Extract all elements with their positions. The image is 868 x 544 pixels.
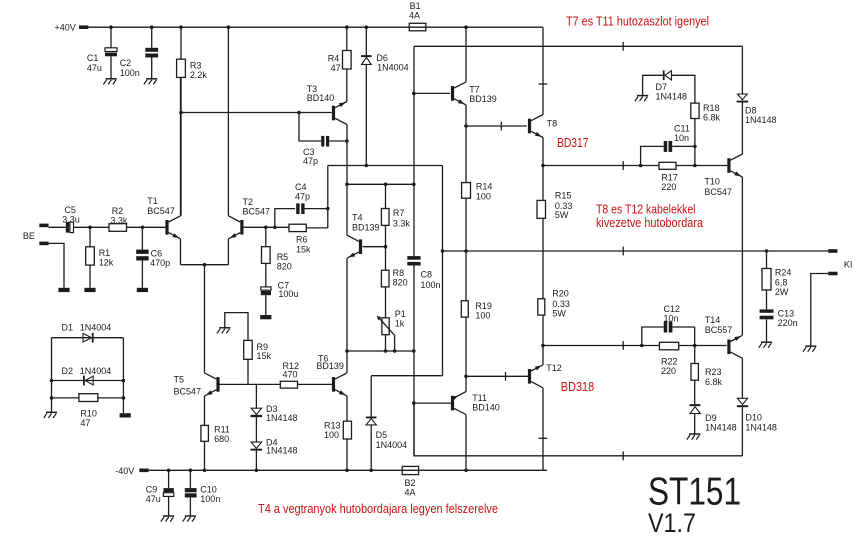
ground C10 [183,516,196,522]
resistor R3 [177,27,208,216]
junction node 366.3,165.5 [365,164,369,168]
junction node 299,112.5 [297,111,301,115]
wire T8 emitter [542,138,544,201]
svg-text:680: 680 [214,434,229,444]
wire T7 collector [465,27,467,82]
svg-text:BD318: BD318 [561,380,594,394]
svg-text:BC547: BC547 [243,206,271,216]
junction node 346.8,27.2 [345,25,349,29]
crossing tick at 623.2,455.8 [622,451,624,460]
svg-text:D9: D9 [705,413,717,423]
wire T4 emitter [346,258,348,373]
capacitor C7 [261,280,299,315]
svg-text:BD140: BD140 [307,93,335,103]
wire D2 mid [52,380,124,382]
svg-text:1N4148: 1N4148 [656,91,688,101]
junction node 694.9,165.5 [693,164,697,168]
svg-text:R11: R11 [214,424,230,434]
capacitor C12 [642,304,695,345]
junction node 543,345.5 [541,344,545,348]
wire T5 emitter [204,396,206,426]
ground C1 [103,79,116,85]
svg-text:KI: KI [844,259,853,269]
wire T10 emitter [741,177,743,335]
wire branch bottom [371,375,442,377]
diode D10 [737,358,777,456]
capacitor C4 [275,182,328,227]
terminal KI upper [828,249,837,253]
capacitor C10 [185,470,221,516]
junction node 190.4,470.3 [189,469,193,473]
resistor R22 [659,342,678,376]
wire T1 emitter [180,239,182,265]
svg-text:47: 47 [80,418,90,428]
resistor R6 [266,224,328,254]
ground bar C6 [137,288,148,292]
note T8/T12 line2 [596,216,703,230]
svg-text:47p: 47p [295,192,310,202]
svg-text:R23: R23 [705,367,722,377]
junction node 274.8,227.3 [273,226,277,230]
junction node 111,27.2 [109,25,113,29]
svg-text:4A: 4A [409,11,420,21]
svg-text:1N4004: 1N4004 [377,63,409,73]
resistor R8 [381,247,407,318]
wire T1 collector [180,77,182,215]
resistor R7 [381,184,410,246]
wire T11 base [414,402,451,404]
ground bar BE [58,288,69,292]
svg-text:C13: C13 [778,309,795,319]
junction node 466,376.3 [464,375,468,379]
transistor T1 [147,196,180,239]
svg-text:B1: B1 [410,1,421,11]
junction node 385.5,351 [384,349,388,353]
svg-text:R24: R24 [775,268,792,278]
capacitor C6 [136,227,170,287]
junction node 204.5,264.7 [203,263,207,267]
svg-text:1N4148: 1N4148 [745,115,777,125]
junction node 366.3,27.2 [365,25,369,29]
wire T12 base [466,375,528,377]
svg-text:1N4004: 1N4004 [376,440,408,450]
svg-text:470: 470 [283,370,298,380]
transistor T11 [451,392,500,415]
junction node 204.5,470.3 [203,469,207,473]
ground KI [803,346,816,352]
wire node T8emitter [543,165,727,167]
crossing tick at 623.2,165.5 [622,161,624,170]
svg-text:T14: T14 [705,315,721,325]
wire T8 base [466,125,527,127]
svg-text:100n: 100n [421,280,441,290]
capacitor C5 [49,205,109,232]
svg-text:T10: T10 [704,177,720,187]
junction node 694.7,345.5 [693,344,697,348]
svg-text:B2: B2 [405,478,416,488]
junction node 385.5,246.7 [384,245,388,249]
crossing tick at 505.5,376.3 [505,372,507,381]
svg-text:T8 es T12 kabelekkel: T8 es T12 kabelekkel [596,203,696,217]
junction node 641.8,345.5 [640,344,644,348]
ground D1D2 [44,412,57,418]
wire node 166 [328,165,443,167]
transistor T3 [307,84,347,125]
svg-text:kivezetve hutobordara: kivezetve hutobordara [596,216,703,230]
junction node 256.4,470.3 [255,469,259,473]
wire T7 emitter [465,105,467,183]
svg-text:T7: T7 [469,84,480,94]
junction node 151.7,27.2 [150,25,154,29]
junction node 413.8,184.3 [412,183,416,187]
diode D8 [737,46,777,154]
svg-text:D10: D10 [745,413,762,423]
junction node 442.5,251 [441,249,445,253]
transistor T8 [528,115,557,138]
svg-text:R19: R19 [475,301,492,311]
note T8/T12 line1 [596,203,696,217]
svg-text:6.8k: 6.8k [705,377,723,387]
junction node 466,27.2 [464,25,468,29]
wire node T12emitter [543,345,727,347]
junction node 466,126 [464,124,468,128]
title V1.7 [648,508,696,538]
svg-text:R1: R1 [99,248,111,258]
junction node 371.2,470.3 [369,469,373,473]
potentiometer P1 [377,309,406,351]
wire T2 emitter [227,239,229,265]
svg-text:+40V: +40V [55,22,76,32]
ground bar R10 [120,413,131,417]
diode D6 [361,27,409,165]
capacitor C1 [87,27,117,79]
resistor R13 [324,420,352,470]
terminal BE upper [23,224,49,242]
svg-text:BC547: BC547 [147,206,175,216]
svg-text:12k: 12k [99,258,114,268]
wire output line [443,250,829,252]
junction node 123.4,397.9 [122,396,126,400]
wire T3 collector [346,125,348,236]
junction node 543,165.5 [541,164,545,168]
note T4 [258,502,498,516]
svg-text:47u: 47u [146,494,161,504]
svg-text:5W: 5W [555,210,569,220]
junction node 385.5,184.3 [384,183,388,187]
resistor R19 [461,301,492,392]
junction node 90,227.3 [88,226,92,230]
capacitor C11 [641,124,695,166]
svg-text:0.33: 0.33 [552,299,570,309]
svg-text:R3: R3 [190,60,202,70]
svg-text:BC557: BC557 [705,325,733,335]
junction node 347,184.3 [345,183,349,187]
ground D7 [635,96,648,102]
ground C9 [161,516,174,522]
svg-text:2.2k: 2.2k [190,70,208,80]
svg-text:R14: R14 [476,181,493,191]
wire node455 [414,403,742,456]
svg-text:BD140: BD140 [472,403,500,413]
svg-text:BD139: BD139 [352,223,380,233]
wire T2 collector [227,27,229,216]
crossing tick at 623.2,46.3 [622,42,624,51]
svg-text:3.3k: 3.3k [393,218,411,228]
note BD318 [561,380,594,394]
junction node 466,470.3 [464,469,468,473]
wire D1D2 right [122,338,124,414]
resistor R15 [537,190,572,251]
resistor R23 [691,364,723,405]
transistor T6 [316,354,347,396]
junction node 466,251 [464,249,468,253]
diode D1 [62,322,112,342]
svg-text:C6: C6 [151,248,163,258]
wire T8 collector [542,27,544,114]
svg-text:C9: C9 [146,484,158,494]
svg-text:T5: T5 [174,375,185,385]
crossing tick at 543,84 [539,83,548,85]
crossing tick at 543,438.3 [539,437,548,439]
junction node 766.5,251 [765,249,769,253]
svg-text:820: 820 [277,261,292,271]
svg-text:6.8k: 6.8k [703,113,721,123]
svg-text:15k: 15k [296,245,311,255]
diode D9 [690,404,737,434]
svg-text:1N4148: 1N4148 [745,422,777,432]
wire C4 riser [327,166,329,229]
svg-text:BC547: BC547 [704,187,732,197]
svg-text:47u: 47u [87,63,102,73]
svg-text:T4 a vegtranyok hutobordajara: T4 a vegtranyok hutobordajara legyen fel… [258,502,498,516]
junction node 265.8,227.3 [264,226,268,230]
transistor T7 [451,82,497,105]
resistor R1 [86,227,114,287]
wire D1D2 left [51,338,53,413]
svg-text:100: 100 [476,191,491,201]
svg-text:D2: D2 [62,366,74,376]
transistor T14 [705,315,743,358]
wire T5 base row [219,383,280,385]
svg-text:T12: T12 [546,363,562,373]
junction node 228.4,27.2 [227,25,231,29]
svg-text:D6: D6 [376,53,388,63]
wire tail [181,265,229,373]
junction node 142.4,227.3 [141,226,145,230]
svg-text:BC547: BC547 [174,387,202,397]
transistor T12 [528,363,562,388]
svg-text:T11: T11 [472,393,487,403]
wire T6 emitter [346,396,348,421]
svg-text:BE: BE [23,231,35,241]
svg-text:R8: R8 [393,268,405,278]
resistor R5 [243,227,292,287]
svg-text:100: 100 [475,311,490,321]
wire node 351 [347,350,414,352]
crossing tick at 623.2,251 [622,247,624,256]
terminal +40V [55,22,89,32]
svg-text:D8: D8 [745,106,757,116]
svg-text:220n: 220n [778,318,798,328]
svg-text:BD317: BD317 [557,136,589,150]
resistor R12 [280,361,332,388]
svg-text:47p: 47p [303,156,318,166]
note T7/T11 [566,14,709,28]
svg-text:100n: 100n [120,68,140,78]
svg-text:100n: 100n [200,494,220,504]
wire bias column upper [413,46,415,256]
title ST151 [648,471,741,514]
svg-text:1N4004: 1N4004 [80,366,112,376]
svg-text:T8: T8 [547,118,558,128]
ground bar R1 [84,288,95,292]
resistor R11 [201,424,230,470]
svg-text:1N4148: 1N4148 [705,423,737,433]
diode D2 [62,366,112,385]
terminal -40V [115,466,148,476]
svg-text:3.3u: 3.3u [62,215,80,225]
svg-text:R15: R15 [555,190,572,200]
svg-text:3.3k: 3.3k [110,215,128,225]
capacitor C13 [760,309,798,343]
capacitor C2 [120,27,158,79]
svg-text:C4: C4 [295,182,307,192]
svg-text:C8: C8 [421,270,433,280]
svg-text:47: 47 [331,63,341,73]
junction node 694.9,146.4 [693,145,697,149]
fuse B1 [409,1,426,31]
diode D4 [251,437,298,470]
resistor R24 [762,251,791,309]
resistor R18 [691,103,721,166]
junction node 347,351 [345,349,349,353]
note BD317 [557,136,589,150]
resistor R17 [659,162,678,192]
transistor T4 [347,212,380,258]
resistor R10 [79,394,98,429]
svg-text:100u: 100u [278,289,298,299]
svg-text:R6: R6 [296,235,308,245]
svg-text:R17: R17 [661,173,678,183]
capacitor C9 [146,470,174,516]
svg-text:V1.7: V1.7 [648,508,696,538]
svg-text:470p: 470p [150,258,170,268]
terminal BE lower [39,242,48,246]
svg-text:R18: R18 [703,103,720,113]
wire fused rail [414,45,742,47]
junction node 181,27.2 [179,25,183,29]
svg-text:5W: 5W [552,308,566,318]
crossing tick at 501.3,126 [500,122,502,131]
svg-text:1N4148: 1N4148 [266,413,298,423]
resistor R14 [462,181,493,300]
junction node 394.6,351 [393,349,397,353]
svg-text:2W: 2W [775,287,789,297]
wire KI ground [811,274,828,347]
junction node 413.8,93.4 [412,92,416,96]
svg-text:D5: D5 [376,430,388,440]
fuse B2 [402,466,418,497]
transistor T5 [174,373,220,397]
svg-text:6,8: 6,8 [775,277,788,287]
wire T12 collector [542,388,544,471]
resistor R4 [328,27,351,101]
svg-text:P1: P1 [395,309,406,319]
ground C2 [144,79,157,85]
junction node 51.5,380.5 [50,379,54,383]
transistor T2 [228,197,270,239]
transistor T10 [704,154,742,197]
svg-text:R22: R22 [661,356,678,366]
ground bar C7 [260,315,271,319]
junction node 640.6,165.5 [639,164,643,168]
svg-text:100: 100 [324,430,339,440]
ground R9 [217,328,230,334]
crossing tick at 623.2,345.5 [622,341,624,350]
svg-text:4A: 4A [405,488,416,498]
svg-text:15k: 15k [257,351,272,361]
wire -40V rail [149,469,547,471]
svg-text:C2: C2 [120,58,132,68]
junction node 51.5,397.9 [50,396,54,400]
junction node 181,112.5 [179,111,183,115]
wire T7 base [414,92,450,94]
wire node 184 [347,183,414,185]
diode D7 [643,70,695,103]
junction node 168.6,470.3 [167,469,171,473]
svg-text:10n: 10n [674,133,689,143]
svg-text:R7: R7 [393,208,405,218]
svg-text:220: 220 [661,366,676,376]
svg-text:1N4004: 1N4004 [80,322,112,332]
svg-text:T7 es T11 hutozaszlot igenyel: T7 es T11 hutozaszlot igenyel [566,14,709,28]
diode D5 [366,376,407,471]
junction node 413.8,403.1 [412,401,416,405]
wire bias column lower [413,266,415,456]
svg-text:R10: R10 [80,409,97,419]
svg-text:T1: T1 [147,196,158,206]
svg-text:R4: R4 [328,54,340,64]
svg-text:C1: C1 [87,53,99,63]
svg-text:R13: R13 [324,420,341,430]
svg-text:820: 820 [393,278,408,288]
resistor R20 [538,251,570,365]
wire D1 top [52,337,124,339]
wire T3 base [181,112,332,114]
svg-text:T4: T4 [352,212,363,222]
capacitor C8 [407,256,440,290]
resistor R9 [225,313,272,385]
diode D3 [251,384,298,442]
junction node 347,470.3 [345,469,349,473]
svg-text:1N4148: 1N4148 [266,446,298,456]
wire T5 collector [204,372,206,374]
svg-text:1k: 1k [395,319,405,329]
wire +40V rail [88,26,543,28]
svg-text:D1: D1 [62,322,74,332]
svg-text:BD139: BD139 [469,94,497,104]
wire BE return [49,243,64,287]
resistor R2 [109,206,165,231]
terminal KI lower [828,259,852,275]
wire T4 base [363,246,386,248]
junction node 347,141 [345,139,349,143]
capacitor C3 [299,113,347,166]
wire T11 collector [465,415,467,471]
svg-text:220: 220 [661,182,676,192]
wire R10 bottom [52,397,124,399]
ground C13 [759,342,772,348]
